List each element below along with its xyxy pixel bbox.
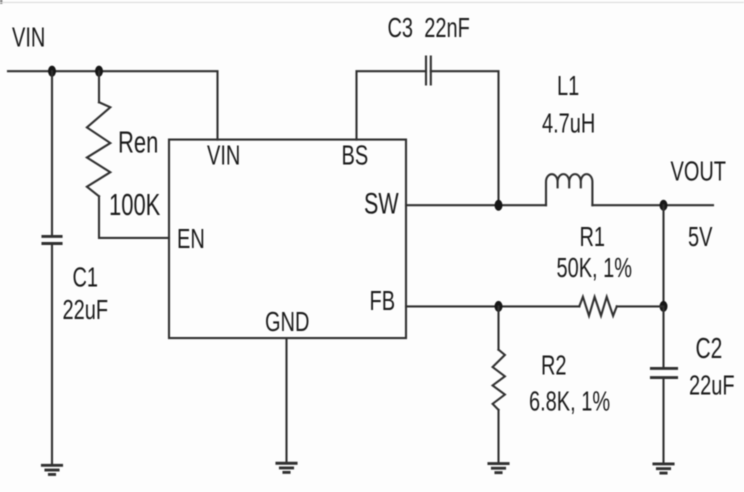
wire BS rail left segment [357, 71, 427, 139]
IC U1 body [169, 140, 406, 338]
wire C1 top lead [51, 71, 53, 236]
resistor Ren [87, 102, 110, 196]
wire VOUT rail [592, 204, 713, 206]
capacitor C2 [651, 368, 677, 377]
capacitor C1 [43, 236, 62, 243]
svg-text:22nF: 22nF [424, 13, 470, 44]
wire VIN rail [8, 71, 218, 139]
svg-text:5V: 5V [688, 222, 712, 253]
svg-text:GND: GND [265, 307, 309, 338]
node J6 FB/R2 junction [495, 301, 503, 312]
ground (C2) [654, 464, 674, 473]
inductor L1 [546, 174, 592, 205]
wire Ren top lead [98, 71, 100, 102]
svg-text:C1: C1 [73, 263, 99, 294]
wire SW pin to inductor [406, 204, 546, 206]
resistor R1 [579, 297, 617, 316]
svg-text:50K, 1%: 50K, 1% [556, 253, 632, 284]
wire Ren bottom to EN pin [99, 196, 169, 238]
node J5 R1/C2 junction [660, 301, 668, 312]
svg-text:EN: EN [177, 224, 205, 255]
ground (R2) [489, 464, 509, 473]
wire R2 to ground [497, 410, 499, 463]
svg-text:L1: L1 [557, 71, 579, 102]
svg-text:VIN: VIN [207, 141, 240, 172]
svg-text:R2: R2 [541, 350, 567, 381]
svg-text:C3: C3 [388, 13, 414, 44]
ground (GND pin) [277, 463, 297, 472]
svg-text:Ren: Ren [118, 125, 158, 159]
ground (C1) [42, 465, 62, 474]
svg-text:22uF: 22uF [689, 371, 735, 402]
svg-text:BS: BS [342, 141, 369, 172]
svg-text:100K: 100K [109, 187, 161, 221]
node J3 SW/C3 junction [495, 200, 503, 211]
svg-text:VOUT: VOUT [671, 156, 727, 187]
svg-text:VIN: VIN [12, 22, 45, 53]
wire GND pin [285, 338, 287, 463]
svg-text:22uF: 22uF [62, 295, 108, 326]
wire VOUT drop to FB level [662, 205, 664, 306]
svg-text:C2: C2 [696, 333, 723, 365]
svg-text:SW: SW [364, 188, 399, 220]
resistor R2 [493, 350, 505, 410]
node J2 VIN/Ren junction [95, 66, 103, 77]
wire R2 top lead [497, 306, 499, 349]
node J1 VIN/C1 junction [48, 66, 56, 77]
wire FB pin to R1 [406, 305, 579, 307]
wire C2 to ground [662, 378, 664, 464]
capacitor C3 [426, 57, 431, 84]
svg-text:FB: FB [369, 286, 395, 317]
svg-text:R1: R1 [580, 222, 606, 253]
node J4 VOUT junction [660, 200, 668, 211]
wire R1 to VOUT drop [617, 305, 664, 307]
wire C1 to ground [51, 244, 53, 466]
wire C2 top lead [662, 306, 664, 368]
svg-text:4.7uH: 4.7uH [542, 108, 595, 139]
svg-text:6.8K, 1%: 6.8K, 1% [529, 387, 610, 418]
wire BS rail right segment + drop to SW node [431, 71, 499, 205]
